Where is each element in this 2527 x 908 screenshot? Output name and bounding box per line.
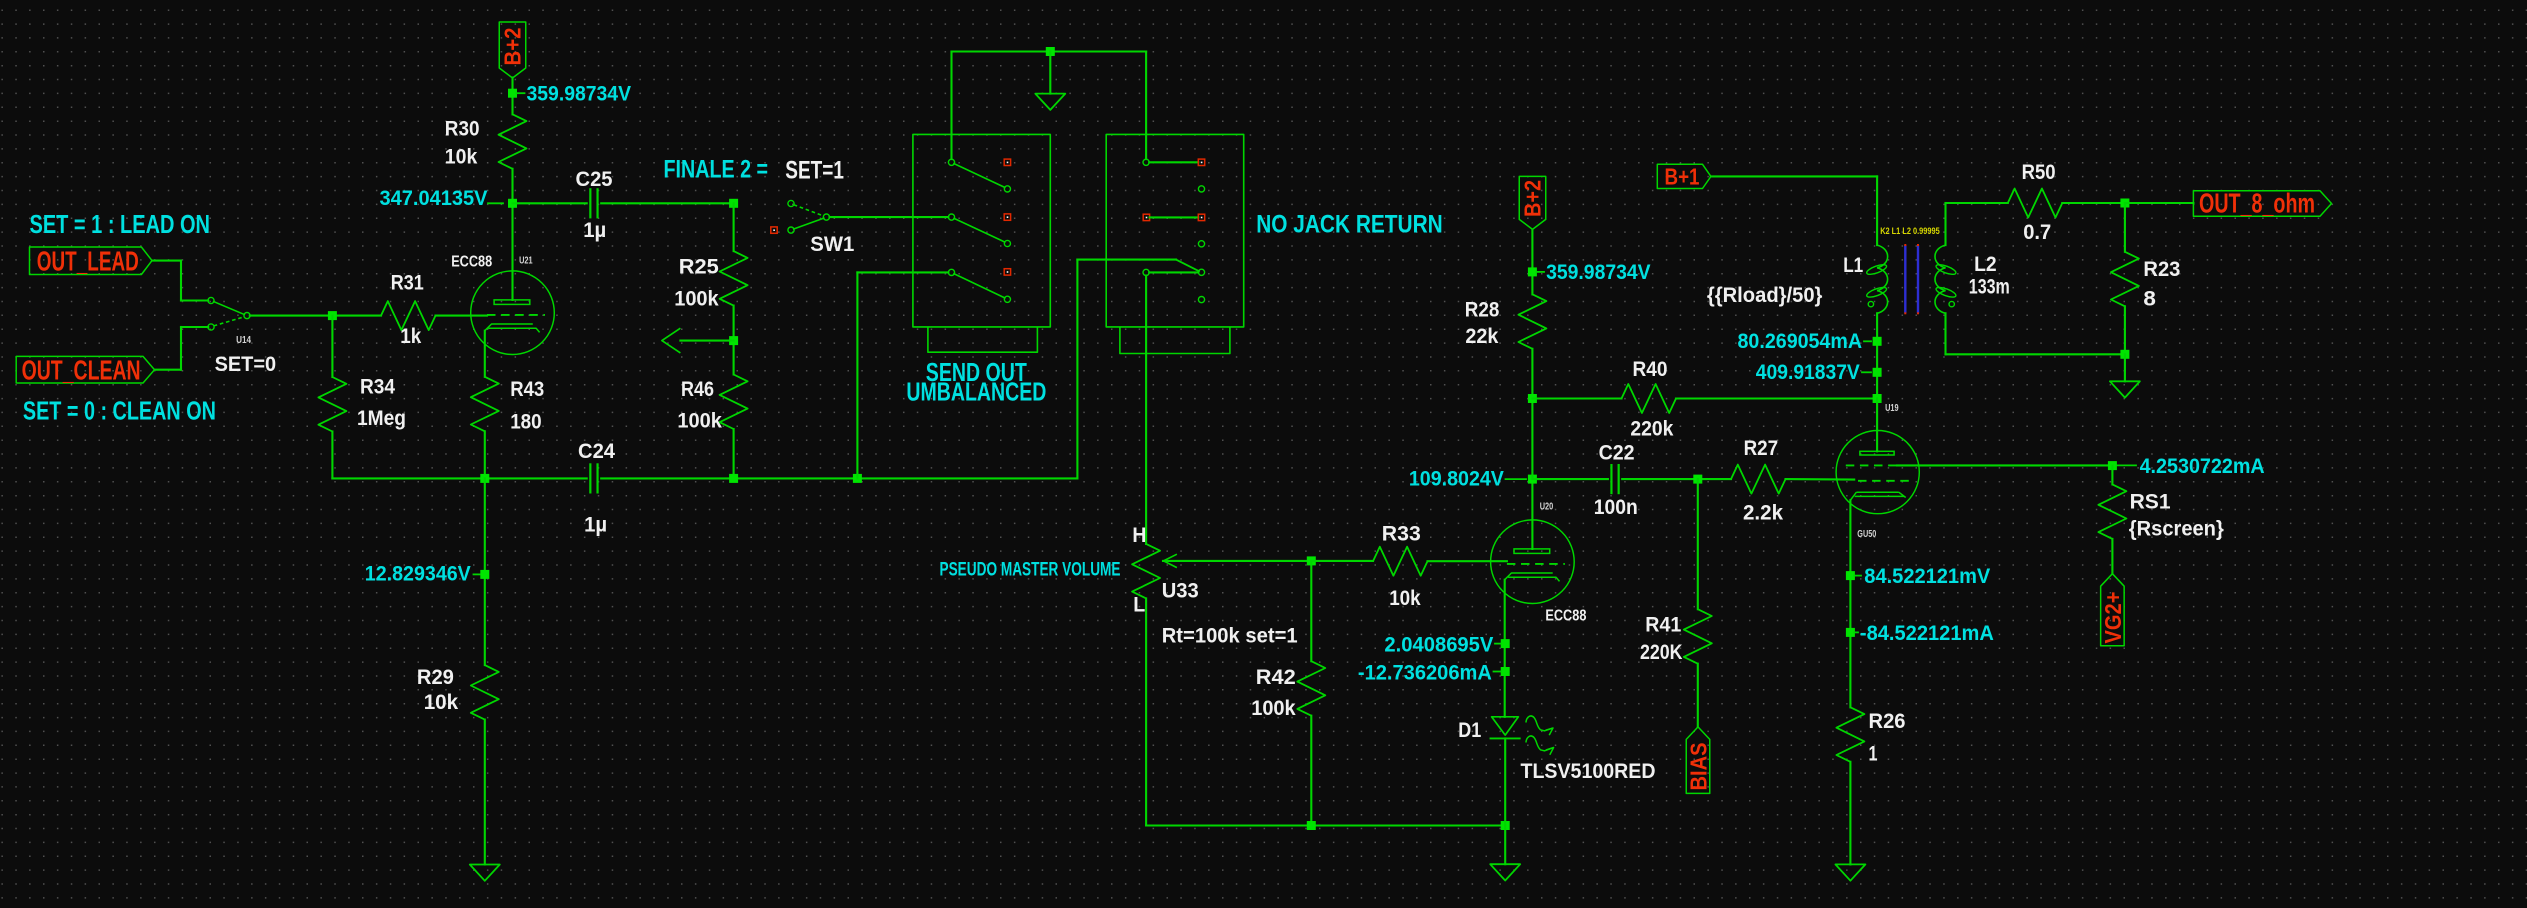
svg-text:100k: 100k xyxy=(1251,697,1296,720)
resistor R46 xyxy=(720,375,748,430)
wire R27 to U19 grid xyxy=(1786,478,1855,481)
wire U21 cathode to R43 xyxy=(484,331,486,377)
svg-text:22k: 22k xyxy=(1465,325,1498,348)
jack J2 row5 wire xyxy=(1149,271,1198,273)
ground jack rail xyxy=(1035,94,1065,110)
wire R33 to U20 grid xyxy=(1428,560,1507,562)
LED arrows xyxy=(1526,716,1553,731)
port OUT_LEAD flag xyxy=(30,247,153,275)
ground R23 xyxy=(2110,381,2140,397)
svg-text:C24: C24 xyxy=(578,440,615,463)
wire switch to R31 xyxy=(250,315,381,317)
resistor R28 xyxy=(1518,294,1546,349)
wire J1 pin1 up xyxy=(950,52,952,160)
svg-text:OUT_CLEAN: OUT_CLEAN xyxy=(22,355,141,386)
wire pot L down xyxy=(1145,598,1147,825)
junction OUT8 node xyxy=(2120,199,2129,208)
jack J1 pin2 xyxy=(948,214,954,220)
jack J1 ring contacts xyxy=(1004,186,1010,192)
jack J1 tab xyxy=(928,327,1038,352)
junction 12.8V node xyxy=(480,570,489,579)
svg-text:U33: U33 xyxy=(1162,580,1199,603)
net arrow left xyxy=(680,340,733,342)
tube U21 xyxy=(471,271,555,355)
wire B+2 to R30 xyxy=(511,78,513,115)
port B+1 flag xyxy=(1657,164,1711,188)
svg-text:ECC88: ECC88 xyxy=(1545,607,1586,624)
svg-text:U21: U21 xyxy=(519,254,533,266)
junction 409V node xyxy=(1873,368,1882,377)
svg-text:1Meg: 1Meg xyxy=(357,407,406,430)
resistor R30 xyxy=(499,114,527,169)
resistor RS1 xyxy=(2098,484,2126,539)
resistor R31 xyxy=(381,301,436,330)
wire bus right xyxy=(601,477,1077,479)
wire L2 top xyxy=(1944,203,1946,245)
svg-text:84.522121mV: 84.522121mV xyxy=(1864,565,1990,588)
wire node to OUT8 xyxy=(2125,202,2194,204)
svg-text:359.98734V: 359.98734V xyxy=(527,82,632,105)
junction 109V node xyxy=(1528,475,1537,484)
resistor R50 xyxy=(2008,189,2063,218)
svg-text:0.7: 0.7 xyxy=(2023,221,2051,244)
svg-text:R33: R33 xyxy=(1382,522,1421,545)
ground R29 xyxy=(470,865,500,881)
wire OUT_CLEAN to switch xyxy=(155,369,182,371)
junction C25 row xyxy=(729,199,738,208)
wire bus left xyxy=(332,477,586,479)
svg-text:L: L xyxy=(1133,593,1145,616)
wire R50 to node xyxy=(2062,202,2125,204)
svg-text:2.0408695V: 2.0408695V xyxy=(1384,633,1493,656)
wire R41 top xyxy=(1697,479,1699,609)
svg-text:TLSV5100RED: TLSV5100RED xyxy=(1521,760,1656,783)
svg-text:-84.522121mA: -84.522121mA xyxy=(1860,622,1994,645)
wire wiper to R33 xyxy=(1311,560,1373,562)
junction 80mA node xyxy=(1873,337,1882,346)
junction arrow node xyxy=(729,336,738,345)
svg-text:BIAS: BIAS xyxy=(1686,743,1712,791)
inductor L2 xyxy=(1935,245,1946,313)
svg-text:GU50: GU50 xyxy=(1857,529,1876,540)
wire R34 to bus xyxy=(331,432,333,479)
svg-text:{Rscreen}: {Rscreen} xyxy=(2129,518,2224,541)
svg-text:Rt=100k set=1: Rt=100k set=1 xyxy=(1162,624,1298,647)
wire D1 to ground xyxy=(1504,826,1506,865)
svg-text:UMBALANCED: UMBALANCED xyxy=(906,376,1046,406)
wire B+1 to L1 xyxy=(1711,175,1877,177)
wire node to RS1 xyxy=(2111,466,2113,485)
svg-text:100k: 100k xyxy=(677,409,722,432)
svg-text:100n: 100n xyxy=(1594,496,1638,519)
junction bottom bus R42 xyxy=(1307,821,1316,830)
wire U19 cathode down xyxy=(1849,500,1851,707)
svg-text:8: 8 xyxy=(2143,287,2156,310)
wire R31 to U21 grid xyxy=(436,315,488,317)
junction R34 top xyxy=(328,311,337,320)
junction rail gnd xyxy=(1046,47,1055,56)
svg-text:12.829346V: 12.829346V xyxy=(365,562,471,585)
wire R43 to bus xyxy=(484,431,486,478)
transformer core xyxy=(1904,245,1906,313)
svg-text:SET=0: SET=0 xyxy=(215,353,277,376)
wire junction to R25 xyxy=(733,203,735,251)
resistor R34 xyxy=(318,377,346,432)
pot wiper arrow xyxy=(1163,560,1311,562)
resistor R25 xyxy=(720,251,748,306)
svg-text:R31: R31 xyxy=(391,271,424,294)
svg-text:U14: U14 xyxy=(236,334,251,346)
pin marker SW1 xyxy=(771,227,777,233)
wire U19 plate xyxy=(1876,399,1878,452)
svg-text:SET = 1 : LEAD ON: SET = 1 : LEAD ON xyxy=(30,209,211,239)
wire R30 to plate xyxy=(511,169,513,300)
svg-text:10k: 10k xyxy=(445,146,478,169)
resistor R33 xyxy=(1373,547,1428,576)
jack J2 tip2 xyxy=(1198,214,1204,220)
capacitor C25 xyxy=(589,189,591,217)
svg-text:C25: C25 xyxy=(576,168,613,191)
svg-text:220k: 220k xyxy=(1630,417,1673,440)
tube U19 xyxy=(1836,431,1919,514)
jack J2 row2 wire xyxy=(1150,216,1199,218)
jack J2 ring2 xyxy=(1198,241,1204,247)
port OUT_8_ohm flag xyxy=(2193,191,2331,216)
junction bus jack xyxy=(853,474,862,483)
svg-text:R26: R26 xyxy=(1869,710,1906,733)
port BIAS flag xyxy=(1686,727,1710,794)
wire L1 bottom xyxy=(1876,313,1878,398)
junction 84mV node xyxy=(1846,571,1855,580)
svg-text:OUT_LEAD: OUT_LEAD xyxy=(37,245,139,276)
wire R42 to bus xyxy=(1310,716,1312,826)
switch U14 xyxy=(208,297,214,303)
port VG2+ flag xyxy=(2101,574,2125,646)
wire J2 pin3 to pot xyxy=(1145,276,1147,544)
wire SW1 pole to jack1 xyxy=(830,216,949,218)
wire jack1 row3 xyxy=(856,272,858,478)
svg-text:347.04135V: 347.04135V xyxy=(380,187,488,210)
wire rail to J2 xyxy=(1145,52,1147,160)
junction 2.04V node xyxy=(1501,639,1510,648)
wire R40 left xyxy=(1532,397,1621,399)
svg-text:1: 1 xyxy=(1869,743,1878,766)
port OUT_CLEAN flag xyxy=(16,356,154,383)
svg-text:R34: R34 xyxy=(360,375,395,398)
svg-text:R27: R27 xyxy=(1744,437,1779,460)
wire OUT_LEAD to switch xyxy=(152,260,181,262)
svg-text:D1: D1 xyxy=(1458,719,1481,742)
svg-text:-12.736206mA: -12.736206mA xyxy=(1358,661,1492,684)
jack J2 ring1 xyxy=(1198,186,1204,192)
tube U20 xyxy=(1491,520,1575,604)
resistor R43 xyxy=(471,377,499,432)
jack J1 pin3 xyxy=(948,269,954,275)
svg-text:NO JACK RETURN: NO JACK RETURN xyxy=(1256,211,1443,239)
diode D1 xyxy=(1492,717,1519,735)
wire bus up to jack2 xyxy=(1076,260,1078,479)
wire L2 bottom xyxy=(1944,313,1946,354)
svg-text:180: 180 xyxy=(510,411,542,434)
svg-text:C22: C22 xyxy=(1599,442,1635,465)
wire gnd stub R23 xyxy=(2124,354,2126,381)
resistor R23 xyxy=(2111,252,2139,306)
jack J2 tip1 xyxy=(1198,159,1204,165)
svg-text:2.2k: 2.2k xyxy=(1743,501,1783,524)
wire R41 to BIAS xyxy=(1697,664,1699,727)
svg-text:133m: 133m xyxy=(1969,275,2010,298)
junction R40 left xyxy=(1528,394,1537,403)
jack J2 pin2 xyxy=(1143,214,1149,220)
svg-text:409.91837V: 409.91837V xyxy=(1756,361,1860,384)
ground R26 xyxy=(1835,864,1865,880)
jack J2 box xyxy=(1106,134,1244,327)
svg-text:359.98734V: 359.98734V xyxy=(1546,261,1651,284)
resistor R41 xyxy=(1684,609,1712,664)
svg-text:PSEUDO MASTER VOLUME: PSEUDO MASTER VOLUME xyxy=(940,560,1121,581)
jack J1 tip contacts xyxy=(1004,159,1010,165)
svg-text:B+1: B+1 xyxy=(1665,164,1700,190)
junction 359V node 2 xyxy=(1528,267,1537,276)
junction 359V node 1 xyxy=(508,89,517,98)
svg-text:R46: R46 xyxy=(681,378,714,401)
wire C25 to junction xyxy=(601,202,733,204)
wire junction to R34 xyxy=(331,316,333,377)
svg-text:R50: R50 xyxy=(2022,161,2056,184)
resistor R42 xyxy=(1297,661,1325,716)
svg-text:SET=1: SET=1 xyxy=(785,156,844,184)
svg-text:1k: 1k xyxy=(400,325,421,348)
jack J1 levers xyxy=(954,164,1005,188)
wire R25 to node xyxy=(733,306,735,375)
ground D1 xyxy=(1490,864,1520,880)
wire node to C22 xyxy=(1532,478,1608,480)
svg-text:80.269054mA: 80.269054mA xyxy=(1738,330,1863,353)
wire U20 plate up xyxy=(1531,479,1533,549)
wire C22 to R27 node xyxy=(1622,478,1731,480)
jack J1 box xyxy=(913,134,1050,327)
svg-text:L1: L1 xyxy=(1843,254,1863,277)
svg-text:H: H xyxy=(1132,524,1146,547)
svg-text:RS1: RS1 xyxy=(2130,490,2171,513)
wire R29 to ground xyxy=(484,720,486,865)
svg-text:B+2: B+2 xyxy=(1520,180,1546,217)
resistor R40 xyxy=(1622,384,1677,413)
junction 4.25mA node xyxy=(2108,461,2117,470)
wire top rail xyxy=(952,50,1147,52)
wire R43 bus down xyxy=(484,478,486,665)
junction U19 plate node xyxy=(1873,394,1882,403)
inductor L1 xyxy=(1877,245,1888,313)
svg-text:100k: 100k xyxy=(674,287,719,310)
pot U33 body xyxy=(1132,544,1160,599)
wire R23 to bottom xyxy=(2124,306,2126,354)
svg-text:R23: R23 xyxy=(2143,258,2180,281)
svg-text:FINALE 2 =: FINALE 2 = xyxy=(664,156,769,184)
jack J1 pin1 xyxy=(948,159,954,165)
wire rail gnd stub xyxy=(1049,52,1051,94)
port B+2 flag 2 xyxy=(1519,176,1546,229)
svg-text:R28: R28 xyxy=(1465,299,1500,322)
svg-text:R25: R25 xyxy=(679,255,719,278)
jack J2 pin3 xyxy=(1143,269,1149,275)
jack J2 ring4 xyxy=(1198,297,1204,303)
svg-text:1µ: 1µ xyxy=(583,219,606,242)
svg-text:SW1: SW1 xyxy=(810,233,854,256)
jack J2 ring3 xyxy=(1198,269,1204,275)
junction bottom bus D1 xyxy=(1501,821,1510,830)
svg-text:220K: 220K xyxy=(1640,641,1683,664)
svg-text:4.2530722mA: 4.2530722mA xyxy=(2140,455,2265,478)
resistor R27 xyxy=(1731,465,1786,494)
svg-text:R43: R43 xyxy=(510,378,544,401)
svg-text:OUT_8_ohm: OUT_8_ohm xyxy=(2199,187,2315,218)
wire R46 to bus xyxy=(733,429,735,478)
svg-text:1µ: 1µ xyxy=(584,513,607,536)
wire R28 to 109 node xyxy=(1531,349,1533,479)
wire node to R23 xyxy=(2124,203,2126,252)
resistor R29 xyxy=(471,665,499,720)
jack J2 pin1 xyxy=(1143,159,1149,165)
wire RS1 to VG2 xyxy=(2111,539,2113,574)
svg-text:SET = 0 : CLEAN ON: SET = 0 : CLEAN ON xyxy=(23,396,216,426)
svg-text:K2 L1 L2 0.99995: K2 L1 L2 0.99995 xyxy=(1880,226,1940,236)
wire B+2 to R28 xyxy=(1531,230,1533,294)
junction -12.7mA node xyxy=(1501,667,1510,676)
wire R26 to ground xyxy=(1849,762,1851,865)
switch SW1 xyxy=(788,200,794,206)
jack J2 row1 wire xyxy=(1149,161,1198,163)
jack J2 tab xyxy=(1120,327,1230,354)
junction bus R46 xyxy=(729,474,738,483)
svg-text:VG2+: VG2+ xyxy=(2100,592,2126,644)
svg-text:109.8024V: 109.8024V xyxy=(1409,467,1504,490)
wire U20 cathode down xyxy=(1504,580,1506,717)
svg-text:R40: R40 xyxy=(1633,358,1668,381)
resistor R26 xyxy=(1836,707,1864,762)
svg-text:U20: U20 xyxy=(1540,500,1554,512)
svg-text:B+2: B+2 xyxy=(500,28,526,66)
wire D1 to bus xyxy=(1504,738,1506,825)
junction R41 top xyxy=(1693,475,1702,484)
wire R40 right xyxy=(1676,397,1877,399)
junction 347V node xyxy=(508,199,517,208)
svg-text:ECC88: ECC88 xyxy=(451,253,492,270)
svg-text:10k: 10k xyxy=(424,691,459,714)
wire node to C25 xyxy=(513,202,587,204)
svg-text:R41: R41 xyxy=(1645,613,1681,636)
port B+2 flag 1 xyxy=(499,22,526,78)
wire U19 screen to RS1 xyxy=(1897,464,2112,466)
svg-text:{{Rload}/50}: {{Rload}/50} xyxy=(1707,284,1823,307)
svg-text:L2: L2 xyxy=(1974,253,1997,276)
junction bus R43 xyxy=(480,474,489,483)
capacitor C24 xyxy=(589,464,591,492)
svg-text:R30: R30 xyxy=(445,118,480,141)
capacitor C22 xyxy=(1610,465,1612,493)
svg-text:10k: 10k xyxy=(1389,587,1421,610)
svg-text:R29: R29 xyxy=(417,666,454,689)
svg-text:R42: R42 xyxy=(1256,666,1296,689)
junction R23 gnd node xyxy=(2120,350,2129,359)
svg-text:U19: U19 xyxy=(1885,402,1899,414)
junction -84mA node xyxy=(1846,628,1855,637)
junction wiper xyxy=(1307,556,1316,565)
wire wiper to R42 xyxy=(1310,561,1312,661)
